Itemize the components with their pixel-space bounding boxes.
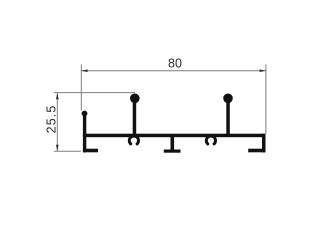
profile: right wall	[262, 134, 266, 153]
profile: right bottom foot	[248, 149, 265, 153]
dimension 25.5: top extension line	[54, 92, 135, 94]
profile: left wall	[83, 113, 86, 153]
dimension 80: left extension line	[80, 64, 82, 110]
profile: left bottom foot	[83, 149, 98, 153]
profile: post 2 ball	[223, 94, 233, 104]
dimension 25.5: dimension line	[56, 93, 58, 152]
profile: middle T foot crossbar	[164, 150, 181, 153]
profile: post 1 ball	[130, 94, 140, 104]
profile: post 1 stem	[133, 98, 137, 137]
dimension 25.5: bottom extension line	[54, 150, 81, 152]
profile: post 2 stem	[226, 98, 230, 137]
dimension 80: right extension line	[265, 64, 267, 133]
svg-text:80: 80	[168, 57, 182, 71]
dimension 80: dimension line	[81, 70, 266, 72]
dimension 80: left arrowhead	[81, 69, 87, 72]
dimension 25.5: bottom arrowhead	[56, 145, 59, 151]
profile: main horizontal bar	[83, 134, 266, 138]
profile: screw channel ring 2	[206, 136, 215, 144]
profile: left wall top knob	[82, 111, 88, 117]
svg-text:25.5: 25.5	[44, 105, 58, 134]
profile: screw channel ring 1	[129, 136, 138, 144]
profile: middle T foot stem	[171, 137, 175, 150]
dimension 25.5: top arrowhead	[56, 93, 59, 99]
dimension 80: right arrowhead	[260, 69, 266, 72]
